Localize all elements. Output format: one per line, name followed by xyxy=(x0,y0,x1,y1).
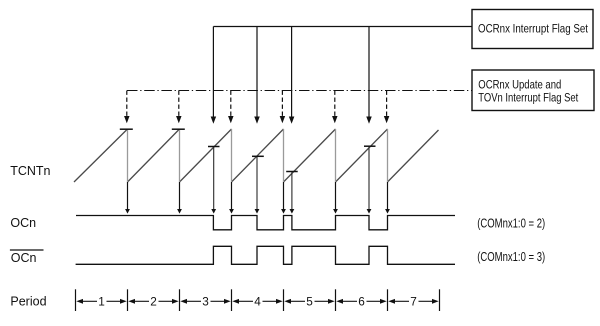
dashed arrow: TOP period 1 xyxy=(124,91,130,124)
OCn inverted waveform (COMnx1:0 = 3) xyxy=(76,246,455,264)
wire: dash-dot line from box 2 xyxy=(127,90,472,92)
period 7 span arrows and number xyxy=(388,294,438,308)
svg-text:Period: Period xyxy=(10,295,46,309)
TCNTn sawtooth ramp 2 xyxy=(128,129,180,182)
callout box: OCRnx Update and TOVn Interrupt Flag Set xyxy=(472,70,594,111)
TCNTn sawtooth ramp 3 xyxy=(180,129,232,182)
solid arrow: compare match period 3 xyxy=(211,27,217,124)
period boundary bar 7 xyxy=(439,289,441,311)
svg-text:OCn: OCn xyxy=(10,216,36,230)
period 3 span arrows and number xyxy=(180,294,230,308)
period boundary bar 6 xyxy=(387,289,389,311)
svg-text:1: 1 xyxy=(98,294,105,308)
TCNTn sawtooth ramp 5 xyxy=(284,129,336,182)
svg-text:OCn: OCn xyxy=(11,251,37,265)
down arrow to OCn at period boundary 5 xyxy=(333,182,338,214)
TCNTn sawtooth ramp 7 xyxy=(388,130,439,182)
TCNTn falling edge 2 xyxy=(179,129,181,182)
label OCn with overline xyxy=(10,250,44,265)
period 6 span arrows and number xyxy=(336,294,386,308)
TCNTn falling edge 4 xyxy=(283,129,285,182)
TCNTn falling edge 1 xyxy=(127,129,129,182)
svg-text:4: 4 xyxy=(254,294,261,308)
down arrow to OCn at period boundary 3 xyxy=(229,182,234,214)
TCNTn sawtooth ramp 1 xyxy=(74,129,128,182)
TCNTn sawtooth ramp 6 xyxy=(336,129,388,182)
svg-text:TCNTn: TCNTn xyxy=(10,164,50,178)
svg-text:2: 2 xyxy=(150,294,157,308)
solid arrow: compare match period 4 xyxy=(254,27,260,124)
down arrow to OCn at period boundary 1 xyxy=(125,182,130,214)
down arrow from compare tick period 3 xyxy=(211,147,216,214)
svg-text:5: 5 xyxy=(306,294,313,308)
TCNTn falling edge 3 xyxy=(231,129,233,182)
OCRnx value tick period 1 xyxy=(120,128,133,130)
svg-text:OCRnx Interrupt Flag Set: OCRnx Interrupt Flag Set xyxy=(478,22,588,36)
period boundary bar 5 xyxy=(335,289,337,311)
svg-text:OCRnx Update and: OCRnx Update and xyxy=(478,78,561,92)
svg-text:3: 3 xyxy=(202,294,209,308)
dashed arrow: TOP period 3 xyxy=(228,91,234,124)
period boundary bar 4 xyxy=(283,289,285,311)
period boundary bar 0 xyxy=(75,289,77,311)
dashed arrow: TOP period 5 xyxy=(332,91,338,124)
TCNTn falling edge 6 xyxy=(387,129,389,182)
period boundary bar 2 xyxy=(179,289,181,311)
period boundary bar 3 xyxy=(231,289,233,311)
svg-text:7: 7 xyxy=(410,294,417,308)
OCRnx value tick period 6 xyxy=(364,145,376,147)
down arrow from compare tick period 4 xyxy=(255,157,260,214)
dashed arrow: TOP period 6 xyxy=(384,91,390,124)
period 1 span arrows and number xyxy=(76,294,126,308)
OCRnx value tick period 2 xyxy=(172,128,185,130)
period 5 span arrows and number xyxy=(284,294,334,308)
down arrow from compare tick period 5 xyxy=(290,172,295,214)
period 4 span arrows and number xyxy=(232,294,282,308)
period boundary bar 1 xyxy=(127,289,129,311)
down arrow to OCn at period boundary 6 xyxy=(385,182,390,214)
solid arrow: compare match period 5 xyxy=(289,27,295,124)
TCNTn sawtooth ramp 4 xyxy=(232,129,284,182)
OCn waveform (COMnx1:0 = 2) xyxy=(76,216,455,230)
OCRnx value tick period 3 xyxy=(208,146,220,148)
dashed arrow: TOP period 4 xyxy=(280,91,286,124)
svg-text:TOVn Interrupt Flag Set: TOVn Interrupt Flag Set xyxy=(478,91,578,105)
solid arrow: compare match period 6 xyxy=(366,27,372,124)
period 2 span arrows and number xyxy=(128,294,178,308)
callout box: OCRnx Interrupt Flag Set xyxy=(472,10,593,49)
OCRnx value tick period 4 xyxy=(252,155,264,157)
wire: top solid line from box 1 xyxy=(213,26,472,28)
dashed arrow: TOP period 2 xyxy=(176,91,182,124)
down arrow to OCn at period boundary 4 xyxy=(281,182,286,214)
OCRnx value tick period 5 xyxy=(286,171,298,173)
svg-text:(COMnx1:0 = 2): (COMnx1:0 = 2) xyxy=(477,217,545,231)
svg-text:(COMnx1:0 = 3): (COMnx1:0 = 3) xyxy=(477,250,545,264)
down arrow from compare tick period 6 xyxy=(367,147,372,214)
down arrow to OCn at period boundary 2 xyxy=(177,182,182,214)
svg-text:6: 6 xyxy=(358,294,365,308)
TCNTn falling edge 5 xyxy=(335,129,337,182)
